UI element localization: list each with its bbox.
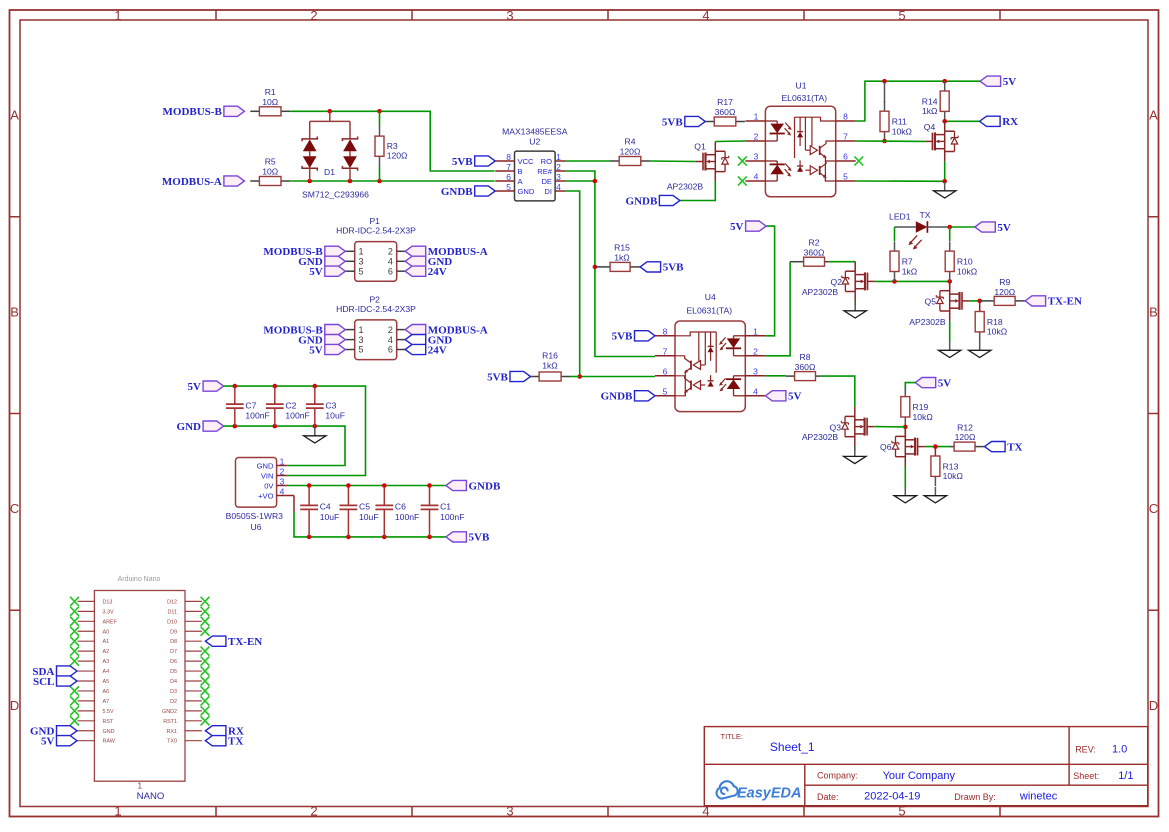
ground at Q3 source — [844, 448, 866, 464]
wire RX node — [945, 120, 980, 122]
net flag SCL at A5 — [33, 676, 77, 688]
svg-text:B: B — [10, 304, 19, 319]
svg-text:0V: 0V — [264, 481, 274, 490]
svg-text:HDR-IDC-2.54-2X3P: HDR-IDC-2.54-2X3P — [336, 304, 416, 314]
resistor R17 — [705, 97, 745, 126]
resistor R15 — [595, 243, 640, 272]
svg-text:8: 8 — [506, 152, 511, 162]
svg-text:R5: R5 — [265, 157, 276, 167]
net flag TX-EN at R9 — [1025, 296, 1082, 308]
svg-text:5: 5 — [663, 386, 668, 396]
svg-text:6: 6 — [843, 152, 848, 162]
wire 5V to R19 — [905, 383, 915, 391]
wire Q6 gate to R12/R13 node — [925, 446, 950, 448]
svg-text:A3: A3 — [103, 659, 110, 665]
resistor R13 — [931, 446, 964, 486]
svg-text:A5: A5 — [103, 679, 110, 685]
ground at Q6 source — [894, 487, 916, 503]
svg-text:100nF: 100nF — [285, 411, 309, 421]
svg-text:1kΩ: 1kΩ — [902, 266, 918, 276]
svg-text:4: 4 — [754, 172, 759, 182]
svg-text:5V: 5V — [997, 222, 1011, 234]
wire R7/R10 node to Q5 drain — [949, 281, 951, 291]
svg-text:5VB: 5VB — [612, 331, 633, 343]
resistor R3 — [375, 111, 408, 181]
svg-text:A4: A4 — [103, 669, 110, 675]
svg-text:360Ω: 360Ω — [715, 107, 736, 117]
capacitor C6 — [375, 487, 419, 537]
resistor R19 — [901, 387, 934, 427]
svg-text:EL0631(TA): EL0631(TA) — [781, 93, 827, 103]
svg-text:R2: R2 — [809, 237, 820, 247]
svg-text:120Ω: 120Ω — [955, 432, 976, 442]
svg-text:VCC: VCC — [518, 157, 535, 166]
svg-text:GNDB: GNDB — [441, 186, 473, 198]
svg-text:D5: D5 — [170, 669, 177, 675]
svg-text:D: D — [1149, 698, 1158, 713]
svg-text:TX: TX — [228, 736, 243, 748]
svg-text:C: C — [10, 501, 19, 516]
wire U4 pin3 to R8 — [765, 375, 785, 377]
svg-text:C5: C5 — [359, 502, 370, 512]
svg-text:5V: 5V — [309, 344, 323, 356]
net flag RX — [980, 116, 1019, 128]
svg-text:R8: R8 — [800, 352, 811, 362]
svg-text:3: 3 — [506, 804, 513, 819]
capacitor C1 — [421, 487, 465, 537]
capacitor C2 — [266, 386, 310, 426]
net flag 5V at cap rail — [188, 381, 224, 393]
svg-text:5V: 5V — [1003, 76, 1017, 88]
svg-text:2: 2 — [280, 466, 285, 476]
junction R9/R18 node — [977, 299, 982, 304]
svg-text:A1: A1 — [103, 639, 110, 645]
svg-text:P2: P2 — [369, 294, 380, 304]
net flag 24V at P1 pin6 — [405, 266, 447, 278]
svg-text:GNDB: GNDB — [469, 480, 501, 492]
net flag MODBUS-B — [163, 106, 245, 118]
net flag MODBUS-A at P1 pin2 — [405, 246, 488, 258]
svg-text:RX: RX — [1002, 116, 1018, 128]
wire Q6 source to ground — [904, 466, 906, 488]
capacitor C4 — [300, 487, 339, 537]
ground below R13 — [924, 487, 946, 503]
wire U1 pin8 to 5V rail — [856, 81, 980, 121]
net flag 5V above U4 — [730, 221, 766, 233]
svg-text:DE: DE — [541, 177, 552, 186]
svg-text:2022-04-19: 2022-04-19 — [864, 791, 920, 803]
svg-text:LED1: LED1 — [889, 211, 911, 221]
net flag GND at P1 pin3 — [298, 256, 345, 268]
svg-text:5V: 5V — [309, 266, 323, 278]
svg-text:5V: 5V — [938, 377, 952, 389]
svg-text:1: 1 — [556, 152, 561, 162]
wire R4 to Q1 gate — [650, 160, 696, 163]
resistor R2 — [790, 237, 830, 266]
svg-text:MODBUS-B: MODBUS-B — [163, 106, 223, 118]
no-connect marks Arduino right pins — [201, 597, 210, 726]
junction Q4 source — [942, 179, 947, 184]
svg-text:AP2302B: AP2302B — [667, 182, 704, 192]
svg-text:D2: D2 — [170, 699, 177, 705]
junction RX node — [942, 119, 947, 124]
svg-text:B: B — [1149, 304, 1158, 319]
svg-text:GND2: GND2 — [162, 709, 177, 715]
svg-text:U6: U6 — [251, 522, 262, 532]
svg-text:5: 5 — [898, 8, 905, 23]
net flag 5V top right — [980, 76, 1016, 88]
svg-text:RST: RST — [103, 719, 114, 725]
net flag 5V at P2 pin5 — [309, 344, 345, 356]
svg-text:1: 1 — [280, 456, 285, 466]
svg-text:AP2302B: AP2302B — [802, 432, 839, 442]
transistor Q2 AP2302B — [802, 261, 875, 301]
svg-text:1: 1 — [753, 326, 758, 336]
svg-text:Q5: Q5 — [925, 296, 937, 306]
svg-text:VIN: VIN — [261, 471, 274, 480]
svg-text:6: 6 — [388, 345, 393, 355]
svg-text:AREF: AREF — [103, 619, 118, 625]
resistor R1 — [250, 87, 290, 116]
net flag GND at P2 pin3 — [298, 334, 345, 346]
transistor Q3 AP2302B — [802, 407, 874, 447]
diode D1 (TVS array SM712) — [302, 111, 369, 199]
svg-text:10Ω: 10Ω — [262, 167, 279, 177]
svg-text:R4: R4 — [625, 137, 636, 147]
svg-text:D11: D11 — [168, 609, 178, 615]
svg-text:3: 3 — [754, 152, 759, 162]
svg-text:2: 2 — [753, 346, 758, 356]
net flag 24V at P2 pin6 — [405, 344, 447, 356]
junction dots 5V rail — [882, 79, 947, 84]
svg-text:R19: R19 — [913, 402, 929, 412]
svg-text:TX-EN: TX-EN — [228, 636, 262, 648]
svg-text:A7: A7 — [103, 699, 110, 705]
svg-text:24V: 24V — [428, 266, 447, 278]
wire MODBUS-A to U2 pin6 — [290, 180, 494, 182]
wire R2 to Q2 drain — [830, 261, 856, 263]
svg-text:R13: R13 — [943, 461, 959, 471]
net flag 5VB at rail — [446, 532, 490, 544]
svg-text:D: D — [10, 698, 19, 713]
svg-text:5: 5 — [843, 172, 848, 182]
svg-text:5V: 5V — [188, 381, 202, 393]
wire Q3 gate to R19 node — [874, 426, 905, 428]
svg-text:100nF: 100nF — [245, 411, 269, 421]
net flag MODBUS-A at P2 pin2 — [405, 324, 488, 336]
svg-text:D1: D1 — [324, 167, 335, 177]
net flag MODBUS-B at P2 pin1 — [263, 324, 345, 336]
svg-text:R1: R1 — [265, 87, 276, 97]
svg-text:A2: A2 — [103, 649, 110, 655]
svg-text:C4: C4 — [320, 502, 331, 512]
transistor Q1 AP2302B — [667, 142, 729, 192]
svg-text:A6: A6 — [103, 689, 110, 695]
svg-text:2: 2 — [388, 325, 393, 335]
svg-text:RO: RO — [541, 157, 552, 166]
junction R12/R13 node — [933, 444, 938, 449]
wire Q5 source to ground — [949, 321, 951, 342]
svg-text:Sheet_1: Sheet_1 — [770, 740, 815, 754]
junction at LED1 cathode — [947, 225, 952, 230]
svg-text:+VO: +VO — [258, 491, 273, 500]
svg-text:GND: GND — [177, 421, 202, 433]
svg-text:10kΩ: 10kΩ — [987, 327, 1008, 337]
svg-text:5: 5 — [506, 182, 511, 192]
svg-text:MODBUS-A: MODBUS-A — [162, 176, 222, 188]
svg-text:3: 3 — [753, 366, 758, 376]
junction dots 5VB rail — [307, 535, 432, 540]
resistor R7 — [894, 227, 896, 241]
wire Q3 source to ground — [854, 446, 856, 450]
net flag GNDB at U4 pin5 — [601, 391, 655, 403]
svg-text:10uF: 10uF — [359, 512, 379, 522]
svg-text:2: 2 — [556, 162, 561, 172]
net flag 5V at R19 — [915, 377, 951, 389]
svg-text:R15: R15 — [614, 243, 630, 253]
net flag RX at RX1 — [205, 726, 244, 738]
wire R16 to DI junction — [570, 376, 580, 378]
net flag TX at TX0 — [205, 736, 243, 748]
svg-text:120Ω: 120Ω — [994, 287, 1015, 297]
wire MODBUS-B to U2 pin7 — [290, 111, 494, 171]
svg-text:1: 1 — [754, 112, 759, 122]
svg-text:Date:: Date: — [817, 792, 839, 802]
wire Q4 source / U1 pin5 to ground — [856, 161, 945, 181]
svg-text:10uF: 10uF — [320, 512, 340, 522]
wire U4 pin1 to 5V — [765, 226, 774, 336]
wire R8 to Q3 drain — [820, 376, 854, 407]
svg-text:TX: TX — [1007, 441, 1022, 453]
svg-text:10kΩ: 10kΩ — [957, 266, 978, 276]
svg-text:7: 7 — [843, 132, 848, 142]
svg-text:SCL: SCL — [33, 676, 54, 688]
junction dots 5V cap rail — [233, 384, 318, 389]
svg-text:4: 4 — [702, 8, 709, 23]
svg-text:D10: D10 — [167, 619, 177, 625]
connector P2 HDR-IDC-2.54-2X3P — [336, 294, 416, 359]
net flag 5V at Arduino — [41, 736, 77, 748]
wire Q2 source to ground — [854, 301, 856, 305]
svg-text:U2: U2 — [529, 136, 540, 146]
svg-text:D3: D3 — [170, 689, 177, 695]
svg-text:2: 2 — [310, 8, 317, 23]
svg-text:1kΩ: 1kΩ — [614, 253, 630, 263]
svg-text:A: A — [1149, 108, 1158, 123]
wire U1 pin7 to Q4 gate — [856, 140, 926, 142]
wire Q5 gate to R9/R18 node — [969, 300, 980, 302]
svg-text:D13: D13 — [103, 599, 113, 605]
svg-text:100nF: 100nF — [440, 512, 464, 522]
ground at Q5 source — [939, 342, 961, 358]
svg-text:U4: U4 — [705, 292, 716, 302]
svg-text:1: 1 — [114, 804, 121, 819]
svg-text:5V: 5V — [788, 391, 802, 403]
junction R11 bottom — [882, 139, 887, 144]
svg-text:R16: R16 — [542, 351, 558, 361]
junction dots R7/R10 node — [892, 279, 952, 284]
svg-text:NANO: NANO — [137, 791, 165, 802]
net flag 5VB at R17 — [662, 116, 705, 128]
svg-text:6: 6 — [506, 172, 511, 182]
ground at Q4 source — [934, 182, 956, 198]
svg-text:C7: C7 — [245, 400, 256, 410]
svg-text:5.5V: 5.5V — [103, 709, 114, 715]
net flag 5V at U4 pin4 — [765, 391, 801, 403]
svg-text:HDR-IDC-2.54-2X3P: HDR-IDC-2.54-2X3P — [336, 226, 416, 236]
svg-text:5VB: 5VB — [663, 262, 684, 274]
net flag GND at P2 pin4 — [405, 334, 452, 346]
svg-text:4: 4 — [753, 386, 758, 396]
svg-text:D12: D12 — [167, 599, 177, 605]
svg-text:4: 4 — [556, 182, 561, 192]
svg-text:Q4: Q4 — [924, 122, 936, 132]
svg-text:10uF: 10uF — [325, 411, 345, 421]
svg-text:R3: R3 — [387, 141, 398, 151]
svg-text:D9: D9 — [170, 629, 177, 635]
transistor Q4 AP2302B — [924, 121, 958, 161]
net flag GNDB at Q1 source — [626, 195, 680, 207]
svg-text:GND: GND — [103, 729, 115, 735]
svg-text:1/1: 1/1 — [1118, 770, 1133, 782]
net flag GNDB at rail — [446, 480, 501, 492]
svg-text:RST1: RST1 — [163, 719, 177, 725]
svg-text:4: 4 — [388, 335, 393, 345]
junction RE#/DE net — [593, 179, 598, 270]
svg-text:REV:: REV: — [1075, 745, 1096, 755]
svg-text:C: C — [1149, 501, 1158, 516]
svg-text:Q6: Q6 — [880, 442, 892, 452]
op-amp U2 MAX13485EESA transceiver — [495, 126, 568, 201]
svg-text:GNDB: GNDB — [626, 195, 658, 207]
svg-text:3: 3 — [359, 257, 364, 267]
svg-text:EL0631(TA): EL0631(TA) — [686, 306, 732, 316]
svg-text:R18: R18 — [987, 317, 1003, 327]
resistor R9 — [980, 277, 1025, 305]
svg-text:MAX13485EESA: MAX13485EESA — [502, 126, 568, 136]
resistor R11 — [884, 82, 886, 103]
svg-text:GND: GND — [257, 461, 274, 470]
net flag MODBUS-B at P1 pin1 — [263, 246, 345, 258]
wire 5V to LED1 — [950, 226, 975, 228]
resistor R8 — [786, 352, 821, 381]
svg-text:A: A — [10, 108, 19, 123]
op-amp U6 B0505S-1WR3 dc-dc module — [226, 456, 287, 532]
ground below C3 — [304, 427, 326, 443]
svg-text:3.3V: 3.3V — [103, 609, 114, 615]
svg-text:5VB: 5VB — [469, 532, 490, 544]
svg-text:3: 3 — [359, 335, 364, 345]
svg-text:1.0: 1.0 — [1112, 743, 1127, 755]
svg-text:1: 1 — [114, 8, 121, 23]
svg-text:2: 2 — [754, 132, 759, 142]
resistor R5 — [250, 157, 290, 186]
resistor R12 — [950, 422, 985, 451]
wire Q2 gate to R7/R10 node — [875, 280, 950, 282]
svg-text:R7: R7 — [902, 257, 913, 267]
svg-text:Drawn By:: Drawn By: — [954, 792, 996, 802]
svg-text:B: B — [518, 167, 523, 176]
svg-text:Arduino Nano: Arduino Nano — [118, 576, 161, 583]
net flag 5V at LED1 — [975, 222, 1011, 234]
svg-text:10kΩ: 10kΩ — [943, 471, 964, 481]
net flag GND at cap rail — [177, 421, 224, 433]
svg-text:120Ω: 120Ω — [387, 151, 408, 161]
wire U4 pin2 up to R2 — [765, 262, 790, 356]
svg-text:Company:: Company: — [817, 771, 858, 781]
net flag 5VB at R16 — [487, 371, 530, 383]
svg-text:1: 1 — [359, 247, 364, 257]
svg-text:R14: R14 — [922, 96, 938, 106]
svg-text:EasyEDA: EasyEDA — [737, 786, 801, 802]
svg-text:2: 2 — [310, 804, 317, 819]
net flag MODBUS-A — [162, 176, 244, 188]
svg-text:5VB: 5VB — [452, 156, 473, 168]
svg-text:1: 1 — [137, 781, 142, 791]
net flag GND at P1 pin4 — [405, 256, 452, 268]
svg-text:100nF: 100nF — [395, 512, 419, 522]
junction dots GNDB rail — [307, 483, 432, 488]
junction dots on MODBUS-B wire — [328, 109, 382, 114]
svg-text:U1: U1 — [796, 81, 807, 91]
svg-text:120Ω: 120Ω — [620, 147, 641, 157]
svg-text:8: 8 — [663, 326, 668, 336]
no-connect marks Arduino left pins — [70, 597, 79, 726]
svg-text:R17: R17 — [717, 97, 733, 107]
svg-text:D4: D4 — [170, 679, 177, 685]
svg-text:D7: D7 — [170, 649, 177, 655]
svg-text:GNDB: GNDB — [601, 391, 633, 403]
svg-text:2: 2 — [388, 247, 393, 257]
net flag TX-EN at D8 — [205, 636, 262, 648]
junction DI net — [577, 374, 582, 379]
svg-text:C1: C1 — [440, 502, 451, 512]
svg-text:TX-EN: TX-EN — [1048, 296, 1082, 308]
svg-text:7: 7 — [506, 162, 511, 172]
svg-text:1: 1 — [359, 325, 364, 335]
junction R19 bottom — [903, 425, 908, 430]
capacitor C3 — [306, 386, 345, 426]
svg-text:C6: C6 — [395, 502, 406, 512]
resistor R10 — [949, 227, 951, 241]
svg-text:TITLE:: TITLE: — [721, 732, 744, 741]
LED LED1 — [889, 210, 950, 249]
wire 5V cap rail to U6 VIN — [224, 386, 366, 475]
svg-text:360Ω: 360Ω — [795, 362, 816, 372]
svg-text:7: 7 — [663, 346, 668, 356]
svg-text:SM712_C293966: SM712_C293966 — [302, 190, 369, 200]
svg-text:6: 6 — [663, 366, 668, 376]
wire U6 0V to GNDB rail — [287, 485, 446, 487]
svg-text:8: 8 — [843, 112, 848, 122]
svg-text:1kΩ: 1kΩ — [922, 106, 938, 116]
svg-text:10kΩ: 10kΩ — [892, 126, 913, 136]
svg-text:GND: GND — [518, 187, 535, 196]
svg-text:24V: 24V — [428, 344, 447, 356]
wire U2 RE#+DE down to U4 pin7 — [566, 171, 655, 357]
resistor R4 — [566, 160, 611, 162]
svg-text:DI: DI — [544, 187, 552, 196]
junction dots GND cap rail — [233, 424, 318, 429]
svg-text:Q1: Q1 — [694, 142, 706, 152]
svg-text:3: 3 — [556, 172, 561, 182]
svg-text:RAW: RAW — [103, 739, 116, 745]
svg-text:4: 4 — [280, 486, 285, 496]
capacitor C5 — [340, 487, 379, 537]
svg-text:Q2: Q2 — [831, 277, 843, 287]
transistor Q6 AP2302B — [880, 427, 925, 467]
svg-text:R11: R11 — [892, 117, 907, 127]
